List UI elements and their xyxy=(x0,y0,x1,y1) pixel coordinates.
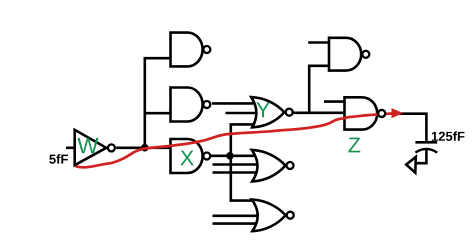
wire NAND2 input xyxy=(145,112,171,115)
wire Y output to gate Z xyxy=(294,112,345,115)
wire Z top input stub xyxy=(324,100,345,103)
wire Y pin2 stub xyxy=(226,112,258,115)
wire W output to gate X xyxy=(116,147,170,150)
red arrowhead at Z output xyxy=(392,108,404,118)
label Y xyxy=(256,102,269,117)
wire X output to NOR1 pin1 xyxy=(211,155,256,158)
capacitor 125fF top plate xyxy=(415,141,437,144)
red critical path highlight xyxy=(76,114,393,168)
label W xyxy=(77,138,98,153)
wire NOR2 pin3 stub xyxy=(213,222,258,225)
nor gate Y xyxy=(251,97,293,127)
wire NAND3 top input stub xyxy=(308,41,329,44)
nand gate X xyxy=(171,139,211,173)
wire Z output to load capacitor xyxy=(391,114,426,143)
nor gate NOR1 (below Y) xyxy=(252,150,294,182)
label 125fF xyxy=(432,131,465,141)
wire NOR2 pin2 stub xyxy=(213,215,259,218)
wire NAND3 bottom input riser from Y output xyxy=(309,66,329,113)
nand gate top-right (unnamed) xyxy=(329,38,369,71)
wire NOR1 pin3 stub xyxy=(213,171,258,174)
nand gate Z xyxy=(345,97,386,129)
wire NAND2 output to Y pin1 xyxy=(212,102,254,105)
ground arrow symbol xyxy=(406,157,416,173)
junction node dot at W output fanout xyxy=(141,144,149,152)
wire input stub to inverter W xyxy=(66,147,75,150)
label Z xyxy=(348,138,360,153)
nor gate NOR2 (bottom) xyxy=(252,200,294,232)
label X xyxy=(180,151,193,166)
wire vertical fanout riser at x=144.8 xyxy=(145,58,171,148)
label 5fF xyxy=(49,154,68,164)
junction node dot at X output fanout xyxy=(226,152,234,160)
wire capacitor bottom to ground xyxy=(416,150,426,164)
wire Y pin3 down to node X and NOR2 xyxy=(231,124,255,200)
inverter W xyxy=(75,130,115,165)
output bubble of gate Z redrawn over red path xyxy=(378,110,385,117)
wire NOR1 pin2 stub xyxy=(213,163,259,166)
nand gate top-left (unnamed) xyxy=(171,33,211,67)
nand gate mid-left (unnamed) xyxy=(171,88,211,122)
capacitor 125fF bottom curved plate xyxy=(415,149,437,153)
